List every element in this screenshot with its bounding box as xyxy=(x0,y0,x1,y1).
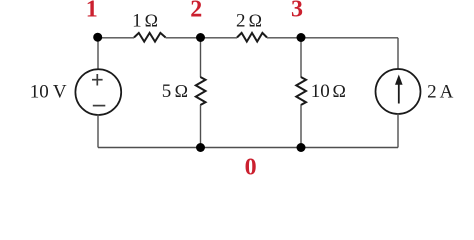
svg-text:Ω: Ω xyxy=(145,11,158,31)
svg-text:Ω: Ω xyxy=(175,81,188,101)
svg-text:10: 10 xyxy=(30,82,49,103)
svg-text:A: A xyxy=(440,81,454,102)
wire R4 to node3 bottom xyxy=(300,105,302,148)
resistor R1 1 Ohm xyxy=(134,33,166,42)
svg-text:1: 1 xyxy=(132,11,142,32)
wire R3 to node2 bottom xyxy=(200,105,202,148)
svg-text:Ω: Ω xyxy=(249,10,262,30)
wire node2 top to R3 xyxy=(200,38,202,77)
wire left vertical voltage source bottom to bottom-left corner xyxy=(97,115,99,148)
wire top segment node2 to R2 xyxy=(201,37,238,39)
svg-text:1: 1 xyxy=(86,0,98,22)
svg-text:2: 2 xyxy=(427,81,437,102)
wire top segment node3 to top-right corner xyxy=(301,37,398,39)
resistor R4 10 Ohm xyxy=(296,77,306,105)
svg-text:3: 3 xyxy=(291,0,303,22)
svg-text:Ω: Ω xyxy=(333,81,346,101)
current source I1 circle xyxy=(376,69,421,114)
current source arrow xyxy=(395,75,403,104)
svg-text:10: 10 xyxy=(311,81,330,102)
svg-text:0: 0 xyxy=(245,154,257,176)
wire bottom rail xyxy=(98,147,398,149)
svg-text:2: 2 xyxy=(190,0,202,22)
svg-text:2: 2 xyxy=(236,10,246,31)
svg-text:5: 5 xyxy=(162,81,172,102)
resistor R2 2 Ohm xyxy=(237,33,267,42)
wire node3 top to R4 xyxy=(300,38,302,77)
wire left vertical node1 to voltage source top xyxy=(97,38,99,70)
node 3 junction dot xyxy=(297,33,306,42)
node 2 junction dot xyxy=(196,33,205,42)
wire top segment R2 to node3 xyxy=(267,37,301,39)
wire top segment node1 to R1 xyxy=(98,37,134,39)
voltage source V1 circle xyxy=(75,69,121,115)
resistor R3 5 Ohm xyxy=(196,77,206,105)
voltage source minus sign xyxy=(93,105,106,107)
node 1 junction dot xyxy=(93,33,102,42)
wire right vertical corner to current source top xyxy=(397,38,399,70)
node 2 bottom junction dot xyxy=(196,143,205,152)
wire top segment R1 to node2 xyxy=(166,37,201,39)
node 3 bottom junction dot xyxy=(297,143,306,152)
voltage source plus sign xyxy=(92,74,103,86)
wire right vertical current source bottom to bottom-right corner xyxy=(397,114,399,148)
svg-text:V: V xyxy=(53,82,67,103)
